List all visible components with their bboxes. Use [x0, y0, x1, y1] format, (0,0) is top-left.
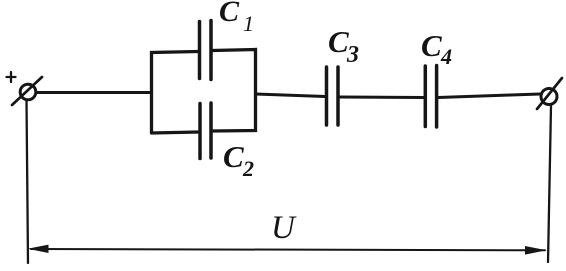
svg-text:C: C	[328, 24, 349, 59]
svg-text:C: C	[219, 0, 240, 28]
svg-text:4: 4	[440, 44, 452, 69]
svg-text:C: C	[421, 28, 442, 63]
svg-text:U: U	[271, 210, 297, 246]
svg-text:C: C	[223, 139, 244, 174]
svg-text:3: 3	[346, 42, 359, 68]
svg-text:2: 2	[242, 156, 254, 181]
svg-text:1: 1	[243, 11, 254, 36]
